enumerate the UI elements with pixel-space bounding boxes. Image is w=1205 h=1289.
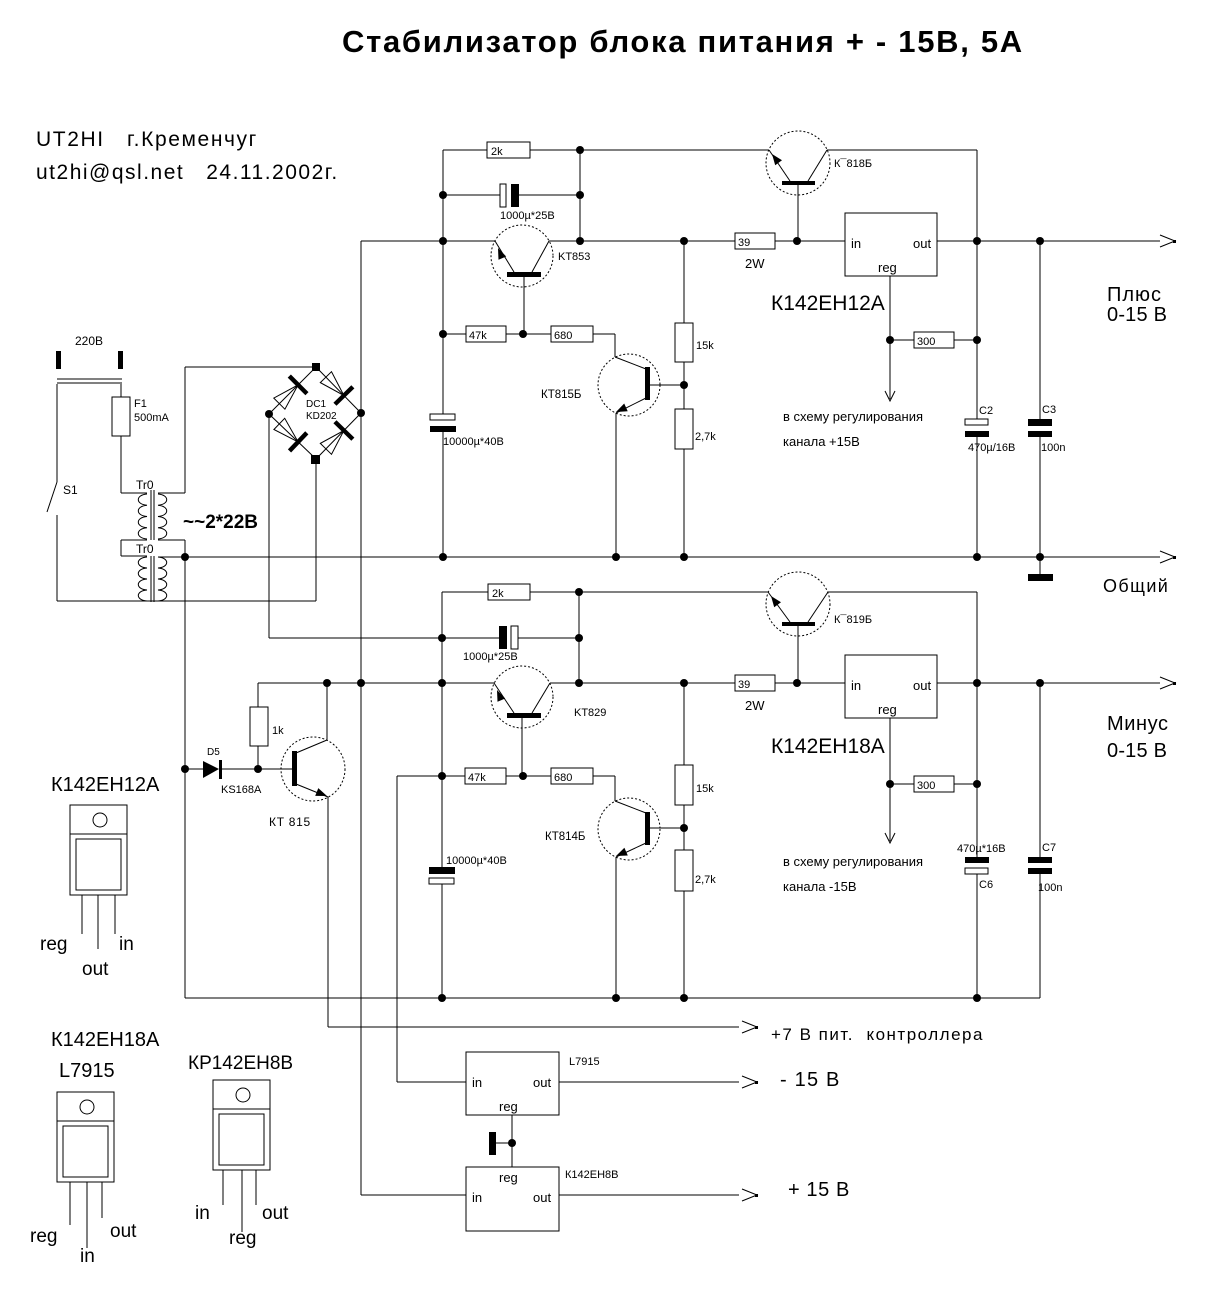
svg-text:C7: C7 [1042, 842, 1056, 854]
label K142EN18A [771, 735, 885, 758]
label 1000µ*25B top [500, 210, 555, 222]
resistor 300 top [914, 332, 954, 348]
wire KT815 collector up [326, 683, 328, 740]
transistor KT853 emitter arrow [498, 248, 506, 260]
label 1000µ*25B bottom [463, 651, 518, 663]
svg-text:47k: 47k [469, 330, 487, 342]
capacitor 1000µ*25B top [500, 184, 519, 207]
svg-text:reg: reg [499, 1099, 518, 1114]
label reg bottom box [878, 702, 897, 717]
svg-text:1000µ*25В: 1000µ*25В [500, 210, 555, 222]
transistor KT853 circle [491, 225, 553, 287]
package KR142EN8B pin in [195, 1203, 210, 1224]
wire plus out rail [937, 235, 1176, 247]
label C7 [1038, 842, 1062, 894]
svg-text:out: out [262, 1203, 289, 1224]
label L7915 [569, 1056, 600, 1068]
label K819B [834, 614, 872, 626]
node out rail x977 top [973, 237, 981, 245]
svg-text:KT829: KT829 [574, 707, 606, 719]
transistor KT814B circle [598, 798, 660, 860]
transistor KT815B base bar [645, 367, 650, 400]
transistor KT829 diagonals [494, 683, 550, 713]
svg-text:in: in [80, 1246, 95, 1267]
label to regulation circuit top [783, 409, 923, 449]
wire x580 down [579, 150, 581, 241]
transistor K818B bar [782, 181, 815, 185]
wire left branch x442 bottom [441, 592, 443, 867]
wire plus rail [361, 240, 845, 242]
node 300 right top [973, 336, 981, 344]
label KT853 [558, 251, 590, 263]
svg-text:10000µ*40В: 10000µ*40В [446, 855, 507, 867]
wire 1k up [257, 683, 259, 769]
wire C2 top [976, 241, 978, 557]
label KS168A [221, 784, 262, 796]
label D5 [207, 747, 220, 758]
node 1000µ right bottom [575, 634, 583, 642]
svg-text:S1: S1 [63, 483, 78, 497]
resistor 300 bottom [914, 776, 954, 792]
wire KT829 base down [521, 718, 523, 776]
capacitor 1000µ*25B bottom [499, 626, 518, 649]
wire 2k top [443, 149, 580, 151]
node base junction bottom [519, 772, 527, 780]
svg-text:100n: 100n [1041, 442, 1065, 454]
capacitor C2 [965, 419, 989, 437]
wire divider bottom [683, 683, 685, 998]
transistor KT815 base bar [292, 751, 297, 786]
node reg junction bottom [886, 780, 894, 788]
label in L7915 [472, 1075, 482, 1090]
capacitor C7 [1028, 857, 1052, 874]
svg-text:Плюс: Плюс [1107, 284, 1162, 306]
transformer Tr0 lower core [151, 556, 154, 602]
node bridge right vertex [357, 409, 365, 417]
svg-text:out: out [913, 678, 931, 693]
transistor KT814B emitter arrow [616, 848, 628, 856]
title [342, 24, 1024, 59]
svg-text:+7 В пит. контроллера: +7 В пит. контроллера [771, 1025, 984, 1044]
package K142EN12A pin out [82, 959, 109, 980]
wire KT815 emitter to +7V [328, 797, 758, 1033]
svg-text:C2: C2 [979, 405, 993, 417]
node 2k right [576, 146, 584, 154]
label Common [1103, 576, 1169, 596]
wire x397 to L7915 [397, 776, 466, 1082]
svg-text:2,7k: 2,7k [695, 431, 716, 443]
svg-text:in: in [195, 1203, 210, 1224]
transistor K819B emitter arrow [771, 596, 781, 607]
diode D5 [203, 760, 222, 779]
svg-text:1k: 1k [272, 725, 284, 737]
svg-text:470µ/16В: 470µ/16В [968, 442, 1015, 454]
svg-text:К142ЕН18А: К142ЕН18А [51, 1029, 160, 1051]
svg-text:2W: 2W [745, 698, 765, 713]
package KR142EN8B drawing [213, 1080, 270, 1232]
wire transformer bottom [57, 600, 316, 602]
svg-text:2k: 2k [492, 588, 504, 600]
wire 47k-680 row top [443, 334, 615, 357]
svg-text:300: 300 [917, 780, 935, 792]
label F1 500mA [134, 398, 170, 424]
wire bridge bottom to transformer [315, 459, 317, 601]
svg-text:КТ 815: КТ 815 [269, 815, 311, 829]
svg-text:К142ЕН12А: К142ЕН12А [51, 774, 160, 796]
svg-text:L7915: L7915 [569, 1056, 600, 1068]
package KR142EN8B pin reg [229, 1228, 256, 1249]
transformer Tr0 lower primary winding [138, 557, 147, 601]
svg-text:DC1: DC1 [306, 399, 326, 410]
wire L7915 reg down [511, 1115, 513, 1167]
wire C6 bottom [976, 683, 978, 998]
transistor KT815B diagonals [615, 357, 646, 413]
wire 2k wire to K819B [579, 592, 977, 683]
transistor KT829 circle [491, 666, 553, 728]
label 2W bottom [745, 698, 765, 713]
node 300 right bottom [973, 780, 981, 788]
svg-text:C3: C3 [1042, 404, 1056, 416]
wire mains left down [56, 384, 58, 482]
resistor 1k [250, 707, 284, 746]
transistor KT815 diagonals [296, 740, 328, 797]
wire D5 to base [222, 768, 292, 770]
svg-text:в схему регулирования: в схему регулирования [783, 854, 923, 869]
node bridge left vertex [265, 410, 273, 418]
node minus rail x579 [575, 679, 583, 687]
svg-text:680: 680 [554, 330, 572, 342]
node x442 rail bottom [438, 679, 446, 687]
svg-text:680: 680 [554, 772, 572, 784]
wire K819B base down [797, 626, 799, 683]
wire to 300 bottom [890, 783, 977, 785]
op-amp U1 regulator K142EN12A box [845, 213, 937, 276]
svg-text:Общий: Общий [1103, 576, 1169, 596]
ground symbol [1028, 557, 1053, 581]
node x442 cap wire bottom [438, 634, 446, 642]
transistor K818B circle [766, 131, 830, 195]
label K142EN12A [771, 292, 885, 315]
svg-text:Tr0: Tr0 [136, 542, 154, 556]
label reg K142EN8B [499, 1170, 518, 1185]
svg-text:reg: reg [499, 1170, 518, 1185]
transistor KT815 emitter arrow [315, 788, 327, 796]
label 2W top [745, 256, 765, 271]
svg-text:0-15 В: 0-15 В [1107, 740, 1167, 762]
node minus rail x327 [323, 679, 331, 687]
svg-text:15k: 15k [696, 340, 714, 352]
wire KT814B collector [650, 827, 684, 829]
node plus rail at x684 [680, 237, 688, 245]
svg-text:К142ЕН8В: К142ЕН8В [565, 1169, 619, 1181]
node out rail x977 bottom [973, 679, 981, 687]
resistor 2.7k top [675, 409, 716, 449]
node bridge top vertex [312, 363, 320, 371]
svg-text:К¯819Б: К¯819Б [834, 614, 872, 626]
label K818B [834, 158, 872, 170]
label 220B [75, 334, 103, 348]
mains cord double line [57, 379, 122, 383]
svg-text:KT853: KT853 [558, 251, 590, 263]
op-amp U2 regulator K142EN18A box [845, 655, 937, 718]
op-amp U3 regulator L7915 box [466, 1052, 559, 1115]
node bottom rail x977 [973, 994, 981, 1002]
wire reg arrow top [885, 340, 895, 401]
svg-text:L7915: L7915 [59, 1060, 115, 1082]
wire C7 bottom [1039, 683, 1041, 998]
transistor K818B diagonals [769, 150, 827, 181]
wire x579 down bottom [578, 592, 580, 683]
svg-text:в схему регулирования: в схему регулирования [783, 409, 923, 424]
transistor KT853 bar [507, 272, 541, 277]
label K142EN8B [565, 1169, 619, 1181]
label C3 [1041, 404, 1065, 454]
svg-text:D5: D5 [207, 747, 220, 758]
wire to 300 top [890, 339, 977, 341]
package K142EN18A pin out [110, 1221, 137, 1242]
svg-text:reg: reg [878, 260, 897, 275]
svg-text:470µ*16В: 470µ*16В [957, 843, 1006, 855]
capacitor 10000µ*40B bottom [429, 867, 455, 884]
svg-text:F1: F1 [134, 398, 147, 410]
transformer Tr0 upper core [151, 490, 154, 540]
package K142EN12A title [51, 774, 160, 796]
transistor KT829 emitter arrow [497, 690, 505, 702]
author note line 1 [36, 128, 258, 151]
resistor 680 top [551, 326, 593, 342]
transistor K819B circle [766, 572, 830, 636]
label +15V output [788, 1179, 850, 1201]
node out rail x1040 bottom [1036, 679, 1044, 687]
node x443 cap wire [439, 191, 447, 199]
node divider mid top [680, 381, 688, 389]
node base junction top [519, 330, 527, 338]
label Plus 0-15V [1107, 284, 1167, 326]
svg-text:КТ815Б: КТ815Б [541, 389, 581, 401]
node divider mid bottom [680, 824, 688, 832]
transistor KT814B diagonals [615, 801, 646, 857]
resistor 47k bottom [465, 768, 506, 784]
package KR142EN8B title [188, 1053, 293, 1074]
label S1 [63, 483, 78, 497]
wire 47k-680 row bottom [397, 776, 615, 801]
transistor K819B diagonals [768, 592, 828, 622]
wire common rail [158, 551, 1176, 563]
svg-text:220В: 220В [75, 334, 103, 348]
svg-text:KD202: KD202 [306, 411, 337, 422]
svg-text:ut2hi@qsl.net 24.11.2002г.: ut2hi@qsl.net 24.11.2002г. [36, 161, 339, 184]
capacitor C3 [1028, 419, 1052, 437]
label KT814B [545, 831, 585, 843]
svg-text:канала -15В: канала -15В [783, 879, 857, 894]
op-amp U4 regulator K142EN8B box [466, 1167, 559, 1231]
svg-text:KS168A: KS168A [221, 784, 262, 796]
svg-text:in: in [472, 1075, 482, 1090]
svg-text:47k: 47k [468, 772, 486, 784]
transistor K819B bar [782, 622, 815, 626]
wire C3 top [1039, 241, 1041, 557]
transistor KT815B emitter arrow [616, 404, 628, 413]
transistor KT815B circle [598, 354, 660, 416]
wire 1000µ top [443, 194, 580, 196]
svg-text:К142ЕН12А: К142ЕН12А [771, 292, 885, 315]
transistor KT853 diagonals [495, 241, 549, 272]
switch S1 [47, 482, 57, 523]
wire x362 to K142EN8B [361, 413, 466, 1195]
svg-text:Стабилизатор блока питания + -: Стабилизатор блока питания + - 15В, 5А [342, 24, 1024, 59]
wire cap to common [442, 432, 444, 557]
node bottom rail x442 [438, 994, 446, 1002]
transistor KT829 bar [507, 713, 541, 718]
package KR142EN8B pin out [262, 1203, 289, 1224]
node D5 anode [181, 765, 189, 773]
node minus rail x362 [357, 679, 365, 687]
capacitor 10000µ*40B top [430, 414, 456, 432]
resistor 2.7k bottom [675, 850, 716, 891]
wire upper windings bottom jog [121, 540, 185, 556]
node bottom rail x684 [680, 994, 688, 1002]
transformer Tr0 lower secondary winding [158, 557, 167, 601]
node reg cap junction [508, 1139, 516, 1147]
svg-text:39: 39 [738, 679, 750, 691]
label 10000µ*40B bottom [446, 855, 507, 867]
svg-text:in: in [472, 1190, 482, 1205]
label in K142EN8B [472, 1190, 482, 1205]
label out bottom box [913, 678, 931, 693]
svg-text:КР142ЕН8В: КР142ЕН8В [188, 1053, 293, 1074]
wire minus out rail [937, 677, 1176, 689]
resistor 15k top [675, 323, 714, 362]
wire divider top [683, 241, 685, 557]
svg-text:~~2*22В: ~~2*22В [183, 512, 258, 533]
node bridge bottom vertex [311, 455, 320, 464]
wire mains right down [120, 384, 122, 397]
label DC1 KD202 [306, 399, 337, 422]
bridge diode lower-left [274, 418, 309, 452]
label Tr0 upper [136, 478, 154, 492]
svg-text:reg: reg [40, 934, 67, 955]
wire KT815B collector [650, 384, 684, 386]
resistor 2k bottom [488, 584, 530, 600]
transistor KT815 circle [281, 737, 345, 801]
svg-text:К142ЕН18А: К142ЕН18А [771, 735, 885, 758]
fuse F1 [112, 397, 130, 436]
label out K142EN8B [533, 1190, 551, 1205]
svg-text:C6: C6 [979, 879, 993, 891]
svg-text:15k: 15k [696, 783, 714, 795]
wire secondary top terminal [158, 492, 185, 494]
wire left branch x443 [442, 150, 444, 414]
wire top rail to K818B [580, 150, 977, 241]
node plus rail at x797 [793, 237, 801, 245]
transistor K818B emitter arrow [772, 154, 782, 165]
node minus rail x684 [680, 679, 688, 687]
label reg L7915 [499, 1099, 518, 1114]
svg-text:UT2HI г.Кременчуг: UT2HI г.Кременчуг [36, 128, 258, 151]
label out L7915 [533, 1075, 551, 1090]
label to regulation circuit bottom [783, 854, 923, 894]
svg-text:in: in [119, 934, 134, 955]
svg-text:out: out [533, 1190, 551, 1205]
svg-text:- 15 В: - 15 В [780, 1069, 841, 1091]
node common at x443 [439, 553, 447, 561]
wire to D5 [185, 768, 203, 770]
svg-text:39: 39 [738, 237, 750, 249]
wire bridge top feed [185, 367, 316, 493]
label +7V output [771, 1025, 984, 1044]
resistor 39 top [735, 233, 775, 249]
node 1k bottom junction [254, 765, 262, 773]
svg-text:КТ814Б: КТ814Б [545, 831, 585, 843]
package K142EN12A pin reg [40, 934, 67, 955]
wire KT815B emitter down [615, 413, 617, 557]
node common at x185 [181, 553, 189, 561]
svg-text:2,7k: 2,7k [695, 874, 716, 886]
label C6 [957, 843, 1006, 891]
package K142EN18A drawing [57, 1092, 114, 1248]
svg-text:reg: reg [229, 1228, 256, 1249]
bridge diode upper-left [274, 375, 309, 410]
label Tr0 lower [136, 542, 154, 556]
transistor KT814B base bar [645, 812, 650, 845]
node plus rail at x580 [576, 237, 584, 245]
transformer Tr0 upper primary winding [138, 494, 147, 539]
svg-text:10000µ*40В: 10000µ*40В [443, 436, 504, 448]
svg-text:2W: 2W [745, 256, 765, 271]
node common at x616 [612, 553, 620, 561]
svg-text:1000µ*25В: 1000µ*25В [463, 651, 518, 663]
label C2 [968, 405, 1015, 454]
label in bottom box [851, 678, 861, 693]
resistor 47k top [466, 326, 506, 342]
svg-text:Минус: Минус [1107, 713, 1169, 735]
node common at x684 [680, 553, 688, 561]
resistor 39 bottom [735, 675, 775, 691]
svg-text:out: out [82, 959, 109, 980]
wire L7915 out [559, 1076, 758, 1088]
package K142EN18A title [51, 1029, 160, 1082]
node out rail x1040 top [1036, 237, 1044, 245]
svg-text:in: in [851, 236, 861, 251]
svg-text:К¯818Б: К¯818Б [834, 158, 872, 170]
transformer Tr0 upper secondary winding [158, 494, 167, 539]
label ~~2*22B [183, 512, 258, 533]
package K142EN18A pin in [80, 1246, 95, 1267]
resistor 2k top [487, 142, 530, 158]
svg-text:Tr0: Tr0 [136, 478, 154, 492]
bridge diode upper-right [320, 372, 354, 406]
node 2k right bottom [575, 588, 583, 596]
wire switch to bottom [56, 523, 58, 601]
wire 1000µ bottom [442, 637, 579, 639]
svg-text:0-15 В: 0-15 В [1107, 304, 1167, 326]
resistor 680 bottom [551, 768, 593, 784]
node x442 47k bottom [438, 772, 446, 780]
label KT829 [574, 707, 606, 719]
svg-text:100n: 100n [1038, 882, 1062, 894]
wire cap to bottom rail [441, 884, 443, 998]
svg-text:+ 15 В: + 15 В [788, 1179, 850, 1201]
wire minus rail [258, 682, 845, 684]
wire K142EN8B out [559, 1189, 758, 1201]
label 10000µ*40B top [443, 436, 504, 448]
label in top box [851, 236, 861, 251]
wire bridge left vertex down [269, 414, 442, 638]
node minus rail x797 [793, 679, 801, 687]
svg-text:канала +15В: канала +15В [783, 434, 860, 449]
wire reg pin down top [889, 276, 891, 340]
svg-text:in: in [851, 678, 861, 693]
